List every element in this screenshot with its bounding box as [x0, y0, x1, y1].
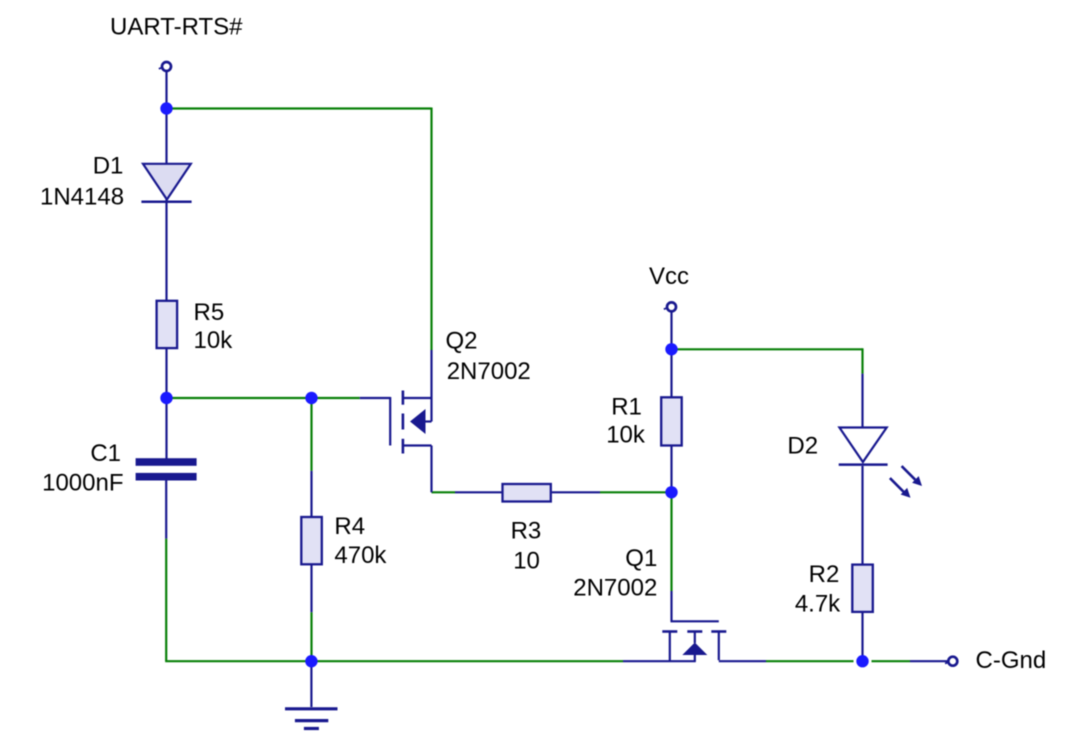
svg-text:Q2: Q2	[446, 328, 478, 355]
svg-text:D2: D2	[787, 432, 818, 459]
svg-text:D1: D1	[93, 153, 124, 180]
svg-text:10k: 10k	[606, 422, 646, 449]
svg-text:10: 10	[513, 548, 540, 575]
svg-text:470k: 470k	[334, 542, 387, 569]
svg-text:R1: R1	[611, 393, 642, 420]
svg-text:R3: R3	[511, 518, 542, 545]
svg-text:R2: R2	[809, 561, 840, 588]
svg-text:Vcc: Vcc	[649, 263, 689, 290]
svg-text:4.7k: 4.7k	[795, 591, 841, 618]
svg-text:1N4148: 1N4148	[40, 183, 124, 210]
svg-text:C1: C1	[90, 440, 121, 467]
svg-text:UART-RTS#: UART-RTS#	[110, 14, 243, 41]
svg-text:1000nF: 1000nF	[42, 470, 123, 497]
svg-text:2N7002: 2N7002	[573, 575, 657, 602]
svg-text:2N7002: 2N7002	[447, 358, 531, 385]
svg-text:C-Gnd: C-Gnd	[976, 647, 1047, 674]
svg-text:Q1: Q1	[625, 545, 657, 572]
svg-text:R4: R4	[334, 513, 365, 540]
svg-text:10k: 10k	[194, 327, 234, 354]
svg-text:R5: R5	[194, 299, 225, 326]
